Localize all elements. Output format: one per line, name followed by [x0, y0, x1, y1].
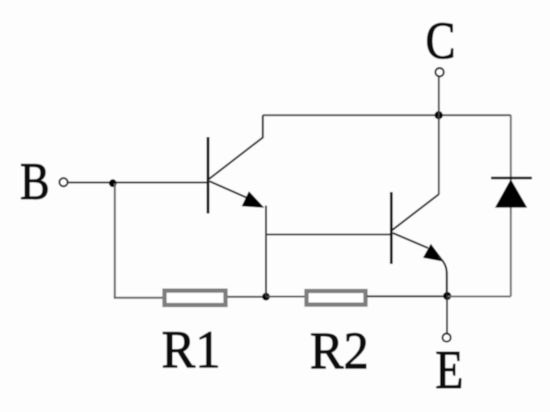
wire right vertical (diode branch): [510, 115, 512, 296]
wire node to R2: [266, 296, 305, 298]
wire bottom-left to R1: [114, 297, 163, 299]
wire R2 to emitter node: [367, 295, 447, 297]
wire left vertical down: [114, 183, 116, 298]
node C label: [427, 23, 453, 59]
resistor R2 label: [311, 333, 366, 368]
wire B to Q1 base: [68, 182, 207, 184]
wire Q1 emitter to Q2 base: [266, 234, 390, 236]
transistor Q1 base bar: [207, 137, 210, 214]
wire E drop: [446, 296, 448, 333]
node B label: [21, 164, 47, 199]
wire R1 to node: [228, 296, 267, 298]
junction node E: [443, 292, 451, 300]
wire bottom rail to right corner: [447, 295, 511, 297]
wire Q1 emitter vertical: [265, 206, 267, 297]
wire top rail: [263, 114, 511, 116]
terminal B: [59, 178, 67, 186]
resistor R1: [165, 291, 226, 305]
transistor Q2 base bar: [390, 192, 393, 264]
junction dot C rail: [435, 111, 443, 119]
wire Q2 emitter curve down: [439, 257, 447, 296]
junction dot at B branch: [109, 179, 117, 187]
resistor R1 label: [163, 332, 218, 367]
resistor R2: [307, 291, 366, 305]
terminal C: [435, 68, 443, 76]
transistor Q2 collector: [392, 194, 439, 230]
transistor Q1 emitter arrow: [242, 191, 265, 208]
diode D1 cathode bar: [491, 177, 532, 180]
transistor Q2 emitter arrow: [423, 244, 444, 262]
junction node R1-R2: [262, 293, 270, 301]
diode D1 triangle: [495, 179, 527, 207]
wire C vertical down to Q2 collector: [438, 77, 440, 195]
node E label: [437, 352, 461, 388]
transistor Q1 collector: [209, 115, 263, 179]
terminal E: [443, 334, 451, 342]
transistor Q2 emitter: [393, 233, 428, 248]
transistor Q1 emitter: [210, 181, 253, 200]
